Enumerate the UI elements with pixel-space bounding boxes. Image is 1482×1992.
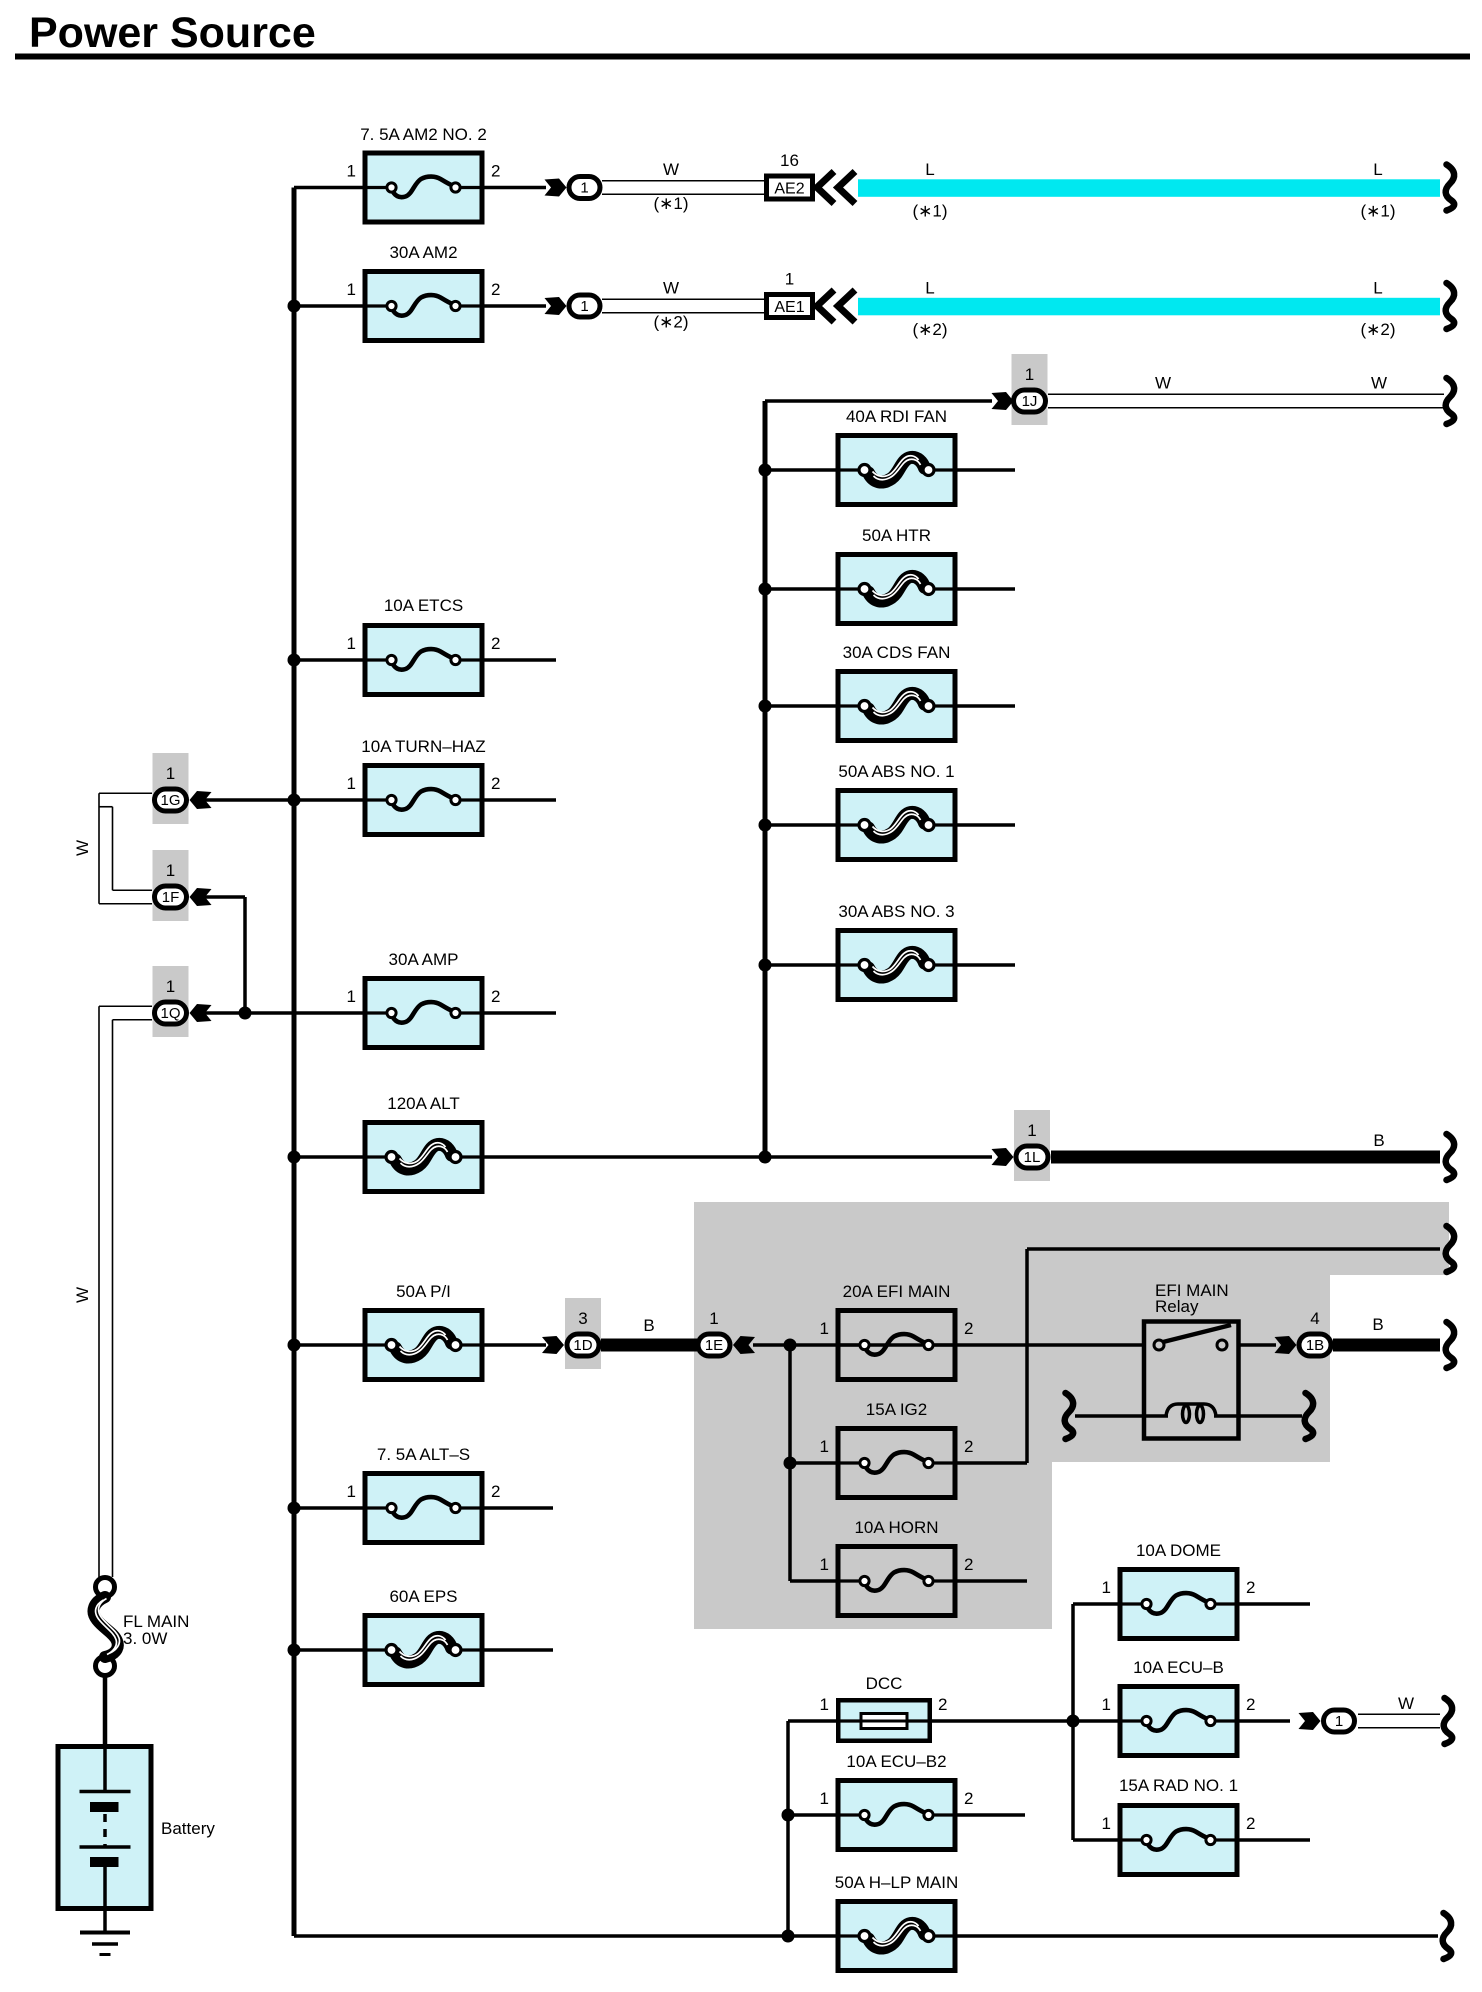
svg-text:1: 1 xyxy=(166,764,175,783)
svg-text:1: 1 xyxy=(347,280,356,299)
svg-text:1: 1 xyxy=(347,634,356,653)
svg-text:1: 1 xyxy=(347,987,356,1006)
svg-text:7. 5A AM2 NO. 2: 7. 5A AM2 NO. 2 xyxy=(360,125,487,144)
svg-text:1: 1 xyxy=(1102,1578,1111,1597)
svg-text:50A P/I: 50A P/I xyxy=(396,1282,451,1301)
svg-text:Battery: Battery xyxy=(161,1819,215,1838)
svg-text:1: 1 xyxy=(820,1437,829,1456)
svg-text:W: W xyxy=(1398,1694,1414,1713)
svg-text:1: 1 xyxy=(820,1555,829,1574)
svg-text:1L: 1L xyxy=(1024,1149,1041,1166)
svg-text:1: 1 xyxy=(580,180,588,197)
svg-text:2: 2 xyxy=(964,1319,973,1338)
svg-text:30A AM2: 30A AM2 xyxy=(389,243,457,262)
svg-text:50A H–LP MAIN: 50A H–LP MAIN xyxy=(835,1873,958,1892)
svg-text:1: 1 xyxy=(1102,1814,1111,1833)
svg-text:1: 1 xyxy=(347,1482,356,1501)
svg-text:2: 2 xyxy=(1246,1695,1255,1714)
svg-text:4: 4 xyxy=(1310,1309,1319,1328)
svg-text:1: 1 xyxy=(709,1309,718,1328)
svg-text:Relay: Relay xyxy=(1155,1297,1199,1316)
svg-text:W: W xyxy=(1371,374,1387,393)
svg-text:1: 1 xyxy=(1335,1713,1343,1730)
svg-text:2: 2 xyxy=(964,1789,973,1808)
svg-text:DCC: DCC xyxy=(866,1674,903,1693)
svg-text:30A ABS NO. 3: 30A ABS NO. 3 xyxy=(838,902,954,921)
svg-text:B: B xyxy=(1373,1131,1384,1150)
svg-text:2: 2 xyxy=(491,162,500,181)
svg-text:10A DOME: 10A DOME xyxy=(1136,1541,1221,1560)
svg-text:L: L xyxy=(1373,160,1382,179)
svg-text:1D: 1D xyxy=(573,1337,592,1354)
svg-text:2: 2 xyxy=(491,634,500,653)
svg-text:2: 2 xyxy=(938,1695,947,1714)
svg-text:1: 1 xyxy=(1027,1121,1036,1140)
svg-text:1B: 1B xyxy=(1306,1337,1324,1354)
svg-text:20A EFI MAIN: 20A EFI MAIN xyxy=(843,1282,951,1301)
svg-text:(∗2): (∗2) xyxy=(912,320,947,339)
svg-text:3: 3 xyxy=(578,1309,587,1328)
svg-text:(∗1): (∗1) xyxy=(653,194,688,213)
svg-text:10A TURN–HAZ: 10A TURN–HAZ xyxy=(361,737,485,756)
svg-text:W: W xyxy=(663,279,679,298)
svg-text:2: 2 xyxy=(491,1482,500,1501)
svg-text:(∗2): (∗2) xyxy=(653,313,688,332)
svg-text:W: W xyxy=(73,840,92,856)
svg-text:B: B xyxy=(643,1316,654,1335)
svg-text:1: 1 xyxy=(166,977,175,996)
svg-text:16: 16 xyxy=(780,151,799,170)
svg-text:1: 1 xyxy=(347,774,356,793)
svg-text:1: 1 xyxy=(1102,1695,1111,1714)
svg-text:1: 1 xyxy=(820,1319,829,1338)
svg-text:1: 1 xyxy=(166,861,175,880)
svg-text:2: 2 xyxy=(491,774,500,793)
svg-text:1: 1 xyxy=(820,1695,829,1714)
svg-text:7. 5A ALT–S: 7. 5A ALT–S xyxy=(377,1445,470,1464)
svg-text:10A ECU–B2: 10A ECU–B2 xyxy=(846,1752,946,1771)
svg-text:1: 1 xyxy=(785,270,794,289)
svg-text:50A HTR: 50A HTR xyxy=(862,526,931,545)
svg-text:2: 2 xyxy=(491,280,500,299)
svg-text:1E: 1E xyxy=(705,1337,723,1354)
svg-text:1J: 1J xyxy=(1022,393,1038,410)
svg-text:W: W xyxy=(1155,374,1171,393)
svg-text:2: 2 xyxy=(491,987,500,1006)
svg-text:10A ETCS: 10A ETCS xyxy=(384,596,463,615)
svg-text:30A CDS FAN: 30A CDS FAN xyxy=(843,643,951,662)
svg-text:(∗1): (∗1) xyxy=(912,202,947,221)
svg-text:2: 2 xyxy=(1246,1578,1255,1597)
svg-text:15A RAD NO. 1: 15A RAD NO. 1 xyxy=(1119,1776,1238,1795)
svg-text:1Q: 1Q xyxy=(160,1005,180,1022)
svg-text:Power Source: Power Source xyxy=(29,9,316,57)
svg-text:30A AMP: 30A AMP xyxy=(389,950,459,969)
svg-text:(∗2): (∗2) xyxy=(1360,320,1395,339)
svg-text:50A ABS NO. 1: 50A ABS NO. 1 xyxy=(838,762,954,781)
svg-text:(∗1): (∗1) xyxy=(1360,202,1395,221)
svg-text:L: L xyxy=(925,160,934,179)
svg-text:40A RDI FAN: 40A RDI FAN xyxy=(846,407,947,426)
svg-text:AE2: AE2 xyxy=(774,181,804,198)
svg-text:L: L xyxy=(925,279,934,298)
svg-text:W: W xyxy=(663,160,679,179)
svg-text:B: B xyxy=(1372,1315,1383,1334)
svg-text:10A ECU–B: 10A ECU–B xyxy=(1133,1658,1224,1677)
svg-text:W: W xyxy=(73,1287,92,1303)
svg-text:120A ALT: 120A ALT xyxy=(387,1094,459,1113)
svg-text:1G: 1G xyxy=(160,792,180,809)
svg-text:3. 0W: 3. 0W xyxy=(123,1629,167,1648)
svg-text:AE1: AE1 xyxy=(774,299,804,316)
svg-text:2: 2 xyxy=(964,1437,973,1456)
svg-text:1: 1 xyxy=(580,298,588,315)
svg-text:L: L xyxy=(1373,279,1382,298)
svg-text:1: 1 xyxy=(820,1789,829,1808)
svg-text:1F: 1F xyxy=(162,889,180,906)
svg-text:60A EPS: 60A EPS xyxy=(389,1587,457,1606)
svg-text:1: 1 xyxy=(1025,365,1034,384)
svg-text:15A IG2: 15A IG2 xyxy=(866,1400,927,1419)
svg-text:2: 2 xyxy=(1246,1814,1255,1833)
svg-text:2: 2 xyxy=(964,1555,973,1574)
svg-text:1: 1 xyxy=(347,162,356,181)
svg-text:10A HORN: 10A HORN xyxy=(854,1518,938,1537)
